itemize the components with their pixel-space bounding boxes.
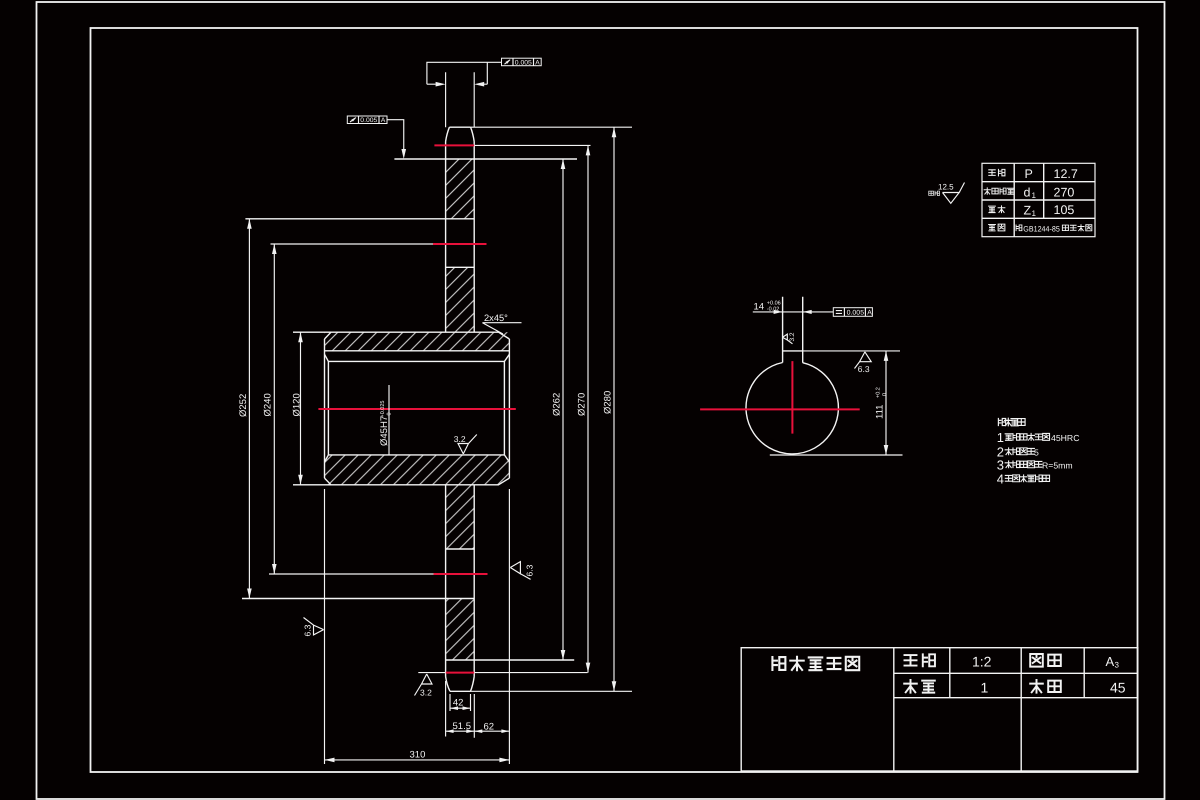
- keyway bottom line in bore: [325, 350, 510, 352]
- dimension 14 keyway width: [753, 301, 834, 314]
- roughness 6.3 right on extension line: [510, 562, 534, 580]
- svg-text:Ø240: Ø240: [263, 393, 274, 416]
- svg-text:4: 4: [997, 471, 1004, 486]
- plate hole top edge lines: [245, 219, 474, 267]
- svg-text:GB1244-85: GB1244-85: [1023, 225, 1060, 234]
- svg-text:P: P: [1025, 167, 1033, 181]
- dimension D252: [238, 219, 252, 599]
- tolerance frame C symmetry 0.005 A: [833, 308, 872, 317]
- main axis center line red: [318, 408, 515, 410]
- tolerance frame B left (runout 0.005 A): [347, 116, 406, 159]
- table row2 gunzi waijing d1 270: [984, 186, 1074, 201]
- dimension 310: [325, 489, 510, 764]
- TITLE BLOCK: [741, 648, 1138, 771]
- pitch line bottom red: [446, 672, 474, 674]
- svg-text:0: 0: [882, 393, 888, 396]
- bore top line with end chamfers: [325, 354, 510, 361]
- svg-text:6.3: 6.3: [303, 624, 313, 636]
- svg-text:A: A: [1106, 654, 1115, 669]
- note line 4: [997, 471, 1050, 486]
- svg-text:111: 111: [874, 405, 885, 419]
- label cailiao 45: [1030, 680, 1126, 696]
- dimension D262: [551, 159, 565, 660]
- svg-text:Ø262: Ø262: [551, 393, 562, 416]
- hatch hub bottom wall section: [325, 455, 510, 485]
- svg-text:A: A: [867, 310, 872, 317]
- note line 1: [997, 430, 1080, 445]
- chamfer label 2x45: [483, 313, 522, 334]
- pitch line top red: [434, 144, 474, 146]
- svg-text:0.005: 0.005: [360, 117, 377, 124]
- dimension 42: [450, 694, 471, 711]
- PARAMETER TABLE top right: [982, 163, 1095, 236]
- label shuliang 1: [904, 679, 988, 695]
- roughness 6.3 left on extension line: [303, 618, 324, 637]
- svg-text:Ø120: Ø120: [292, 393, 303, 416]
- plate outline left edge: [445, 142, 447, 677]
- tooth tip line bottom: [471, 690, 633, 692]
- svg-text:3: 3: [997, 457, 1004, 472]
- svg-text:0: 0: [387, 412, 393, 415]
- svg-text:1: 1: [997, 430, 1004, 445]
- plate hole bottom edge lines: [242, 549, 474, 599]
- svg-text:12.7: 12.7: [1054, 167, 1078, 181]
- roughness 3.2 at bore: [454, 434, 477, 454]
- table row4 chixing an GB1244-85 guiding zhizao: [989, 224, 1092, 233]
- hatch plate bottom section: [446, 485, 475, 549]
- pitch line bottom white: [418, 672, 587, 674]
- dimension 111 keyway depth: [770, 351, 903, 455]
- bore diameter label D45H7: [379, 385, 393, 455]
- svg-text:Ø280: Ø280: [602, 391, 613, 414]
- roughness 3.2 below bottom tooth: [415, 674, 433, 697]
- svg-text:d: d: [1024, 186, 1031, 200]
- roughness 3.2 on keyway side: [783, 332, 796, 344]
- svg-text:A: A: [381, 117, 386, 124]
- hatch plate top section: [446, 267, 475, 332]
- hub right face: [508, 339, 510, 478]
- svg-text:6.3: 6.3: [525, 564, 535, 576]
- svg-text:45: 45: [1110, 680, 1126, 696]
- hub left face: [324, 339, 326, 478]
- tooth tip line top: [471, 126, 632, 128]
- dimension D270: [576, 145, 590, 672]
- svg-text:0.005: 0.005: [847, 310, 865, 317]
- svg-text:+0.025: +0.025: [380, 401, 386, 418]
- title lianlun lingjian tu: [772, 657, 859, 670]
- hatch hub top wall section: [325, 332, 510, 351]
- svg-text:5: 5: [1034, 447, 1039, 457]
- hole center bottom white: [269, 573, 434, 575]
- hole center top white: [271, 243, 434, 245]
- tooth profile bottom: [446, 677, 475, 692]
- roughness 6.3 on keyway extension: [855, 352, 872, 374]
- note line 2: [997, 444, 1039, 459]
- note line 3: [997, 457, 1073, 472]
- tolerance frame A top (runout 0.005 A): [502, 58, 542, 66]
- bore end chamfer edge verticals: [328, 361, 504, 455]
- hub bottom outer surface: [293, 478, 509, 485]
- dimension D120: [292, 332, 303, 485]
- label tuhao A3: [1030, 654, 1119, 670]
- svg-text:Ø45H7: Ø45H7: [379, 416, 390, 446]
- keyway slot sides: [783, 297, 803, 363]
- svg-text:3.2: 3.2: [420, 687, 432, 697]
- svg-text:-0.02: -0.02: [767, 307, 780, 313]
- detail center line red cross: [700, 361, 860, 434]
- table row1 jieju P 12.7: [989, 167, 1078, 181]
- bore bottom line with end chamfers: [325, 455, 510, 462]
- svg-text:42: 42: [453, 698, 464, 709]
- svg-text:3.2: 3.2: [789, 332, 796, 341]
- svg-text:2x45°: 2x45°: [484, 313, 508, 323]
- svg-text:3.2: 3.2: [454, 434, 466, 444]
- plate outline right edge: [473, 142, 475, 677]
- hatch rim top section: [446, 159, 475, 219]
- svg-text:0.005: 0.005: [515, 59, 532, 66]
- TECH NOTES jishu yaoqiu: [998, 418, 1025, 426]
- svg-text:45HRC: 45HRC: [1051, 433, 1080, 443]
- svg-text:Z: Z: [1024, 204, 1032, 218]
- svg-text:12.5: 12.5: [938, 183, 954, 192]
- svg-text:Ø252: Ø252: [238, 394, 249, 417]
- hub top outer surface: [293, 332, 509, 339]
- keyway bottom line and extension: [783, 350, 900, 352]
- svg-text:3: 3: [1115, 660, 1120, 669]
- svg-text:1: 1: [981, 679, 989, 695]
- dimension 62: [474, 722, 509, 734]
- hole center top red: [433, 243, 487, 245]
- svg-text:+0.2: +0.2: [875, 387, 881, 398]
- svg-text:1: 1: [1032, 209, 1037, 218]
- svg-text:R=5mm: R=5mm: [1042, 460, 1073, 470]
- svg-text:105: 105: [1054, 203, 1075, 217]
- svg-text:51.5: 51.5: [453, 721, 472, 732]
- hatch rim bottom section: [446, 599, 475, 661]
- svg-text:A: A: [535, 59, 540, 66]
- general roughness 12.5 with quyu note: [929, 183, 965, 204]
- svg-text:62: 62: [484, 722, 495, 733]
- svg-text:6.3: 6.3: [858, 364, 870, 374]
- svg-text:Ø270: Ø270: [576, 393, 587, 416]
- table row3 chishu Z1 105: [989, 203, 1075, 218]
- svg-text:270: 270: [1054, 186, 1075, 200]
- label bili 1:2: [905, 653, 992, 669]
- pitch line top white: [474, 144, 590, 146]
- bore circle: [746, 363, 838, 454]
- dimension 51.5: [446, 681, 475, 738]
- hole center bottom red: [434, 573, 488, 575]
- tooth profile top: [446, 127, 475, 141]
- runout datum bracket over top tooth: [427, 62, 502, 127]
- svg-text:1:2: 1:2: [972, 653, 992, 669]
- tooth root line top: [394, 158, 577, 160]
- tooth root line bottom: [446, 659, 575, 661]
- dimension D280: [602, 127, 616, 691]
- svg-text:1: 1: [1032, 191, 1037, 200]
- svg-text:310: 310: [410, 750, 426, 761]
- svg-text:14: 14: [754, 302, 765, 313]
- dimension D240: [263, 244, 277, 574]
